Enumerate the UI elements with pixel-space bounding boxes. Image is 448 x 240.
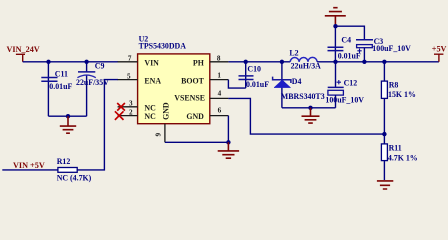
svg-text:C12: C12 bbox=[344, 79, 358, 88]
port VIN_24V bbox=[7, 45, 40, 62]
pin 1 BOOT bbox=[181, 72, 228, 86]
wire PH net to inductor bbox=[228, 61, 290, 63]
svg-text:0.01uF: 0.01uF bbox=[246, 80, 269, 89]
wire +5V rail from inductor to port bbox=[317, 61, 439, 63]
node junction feedback at divider bbox=[382, 132, 386, 136]
node junction IC ground bbox=[226, 140, 230, 144]
svg-text:3: 3 bbox=[129, 100, 133, 108]
svg-text:R11: R11 bbox=[389, 144, 402, 153]
svg-text:4: 4 bbox=[218, 90, 222, 98]
node junction at input ground bbox=[66, 114, 70, 118]
svg-text:100uF_10V: 100uF_10V bbox=[372, 44, 411, 53]
capacitor C11 0.01uF bbox=[41, 62, 72, 116]
svg-text:2: 2 bbox=[129, 108, 133, 116]
svg-text:NC (4.7K): NC (4.7K) bbox=[57, 174, 92, 183]
svg-text:R8: R8 bbox=[389, 81, 399, 90]
node junction C9 on VIN net bbox=[84, 60, 88, 64]
svg-text:R12: R12 bbox=[57, 157, 71, 166]
capacitor C4 0.01uF bbox=[328, 26, 361, 62]
pin 3 NC bbox=[118, 100, 156, 113]
svg-text:NC: NC bbox=[144, 112, 156, 121]
svg-text:VIN: VIN bbox=[144, 59, 159, 68]
pin 5 ENA bbox=[118, 72, 162, 85]
no-connect X on pin 2 bbox=[115, 111, 124, 120]
ground symbol (IC) bbox=[218, 142, 239, 158]
capacitor C12 100uF_10V (polarized) bbox=[325, 62, 364, 108]
ground symbol (input caps) bbox=[60, 116, 76, 133]
svg-text:9: 9 bbox=[155, 133, 163, 137]
svg-text:1: 1 bbox=[217, 72, 221, 80]
node junction C4 on +5V rail bbox=[333, 60, 337, 64]
svg-text:ENA: ENA bbox=[144, 77, 161, 86]
resistor R12 NC(4.7K) bbox=[57, 157, 92, 183]
svg-text:BOOT: BOOT bbox=[181, 77, 205, 86]
pin 2 NC bbox=[118, 108, 156, 121]
node junction top ground bbox=[333, 24, 337, 28]
svg-text:VIN_24V: VIN_24V bbox=[7, 45, 40, 54]
resistor R8 15K 1% bbox=[381, 62, 416, 134]
svg-text:0.01uF: 0.01uF bbox=[49, 82, 72, 91]
svg-text:8: 8 bbox=[217, 54, 221, 62]
svg-text:0.01uF: 0.01uF bbox=[338, 51, 361, 60]
capacitor C3 100uF_10V (polarized) bbox=[356, 37, 411, 62]
wire R12 to ENA pin 5 bbox=[77, 80, 118, 170]
power ground (top, inverted) bbox=[325, 8, 346, 27]
svg-text:15K 1%: 15K 1% bbox=[388, 90, 416, 99]
no-connect X on pin 3 bbox=[117, 103, 125, 111]
svg-text:6: 6 bbox=[218, 107, 222, 115]
svg-text:GND: GND bbox=[162, 102, 171, 120]
node junction R8 on +5V rail bbox=[382, 60, 386, 64]
ground symbol (R11) bbox=[377, 181, 393, 189]
node junction C3 on +5V rail bbox=[362, 60, 366, 64]
svg-text:5: 5 bbox=[127, 72, 131, 80]
svg-text:C9: C9 bbox=[95, 62, 105, 71]
svg-text:C11: C11 bbox=[55, 69, 68, 78]
pin 7 VIN bbox=[118, 55, 160, 68]
node junction C11 on VIN net bbox=[46, 60, 50, 64]
svg-text:C4: C4 bbox=[341, 35, 351, 44]
ground symbol (diode/C12) bbox=[302, 108, 320, 123]
pin 6 GND bbox=[186, 107, 228, 121]
svg-text:VSENSE: VSENSE bbox=[174, 93, 205, 102]
svg-text:L2: L2 bbox=[289, 48, 298, 57]
pin 8 PH bbox=[193, 54, 228, 67]
diode D4 MBRS340T3 (schottky) bbox=[273, 62, 325, 108]
svg-text:GND: GND bbox=[186, 112, 204, 121]
svg-text:100uF_10V: 100uF_10V bbox=[325, 96, 364, 105]
svg-text:7: 7 bbox=[128, 55, 132, 63]
wire VIN_24V to pin 7 bbox=[23, 61, 118, 63]
pin 4 VSENSE bbox=[174, 90, 228, 103]
node junction C10 on PH bbox=[244, 60, 248, 64]
node junction diode ground bbox=[308, 106, 312, 110]
wire BOOT to C10 bbox=[228, 80, 245, 89]
svg-text:+5V: +5V bbox=[432, 45, 447, 54]
wire top ground to C3 bbox=[336, 26, 365, 40]
pin 9 GND pad bbox=[155, 102, 171, 142]
wire ground rail under C11/C9 bbox=[48, 115, 86, 117]
wire VSENSE feedback bbox=[228, 98, 384, 134]
svg-text:C10: C10 bbox=[247, 65, 261, 74]
svg-text:MBRS340T3: MBRS340T3 bbox=[281, 92, 325, 101]
resistor R11 4.7K 1% bbox=[381, 134, 417, 180]
wire D4/C12 ground link bbox=[282, 107, 336, 109]
svg-text:PH: PH bbox=[193, 59, 204, 68]
port +5V bbox=[432, 45, 447, 62]
wire pin6 GND down bbox=[227, 116, 229, 143]
svg-text:4.7K 1%: 4.7K 1% bbox=[388, 153, 418, 162]
svg-text:VIN +5V: VIN +5V bbox=[13, 161, 45, 170]
port VIN +5V bbox=[2, 161, 58, 170]
svg-text:22uH/3A: 22uH/3A bbox=[291, 62, 322, 71]
inductor L2 22uH/3A bbox=[289, 48, 321, 70]
node junction D4 on PH bbox=[280, 60, 284, 64]
svg-text:TPS5430DDA: TPS5430DDA bbox=[139, 41, 187, 50]
svg-text:D4: D4 bbox=[292, 77, 302, 86]
wire pin9 pad to ground bbox=[165, 141, 229, 143]
capacitor C9 22uF/35V (polarized) bbox=[76, 62, 109, 117]
capacitor C10 0.01uF (bootstrap) bbox=[239, 62, 270, 89]
IC U2 TPS5430DDA body bbox=[138, 35, 210, 124]
